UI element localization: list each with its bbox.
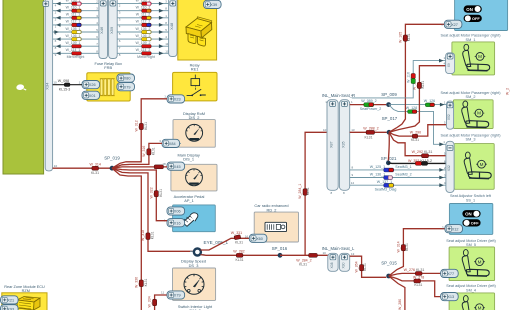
connector X06 [167, 207, 185, 215]
svg-text:KL31: KL31 [365, 135, 373, 139]
svg-text:SP_016: SP_016 [272, 246, 288, 251]
svg-text:W_316: W_316 [142, 146, 146, 157]
svg-text:SeatPower_2: SeatPower_2 [360, 107, 382, 111]
svg-text:X35: X35 [342, 141, 346, 147]
wire SP_017 to SP_021 [387, 132, 390, 161]
wire W_105 (SP_017 up to X27) [389, 24, 444, 132]
svg-text:KL31: KL31 [421, 81, 425, 89]
inline connector INL_Main-Seat_R X35 [339, 100, 353, 196]
wire W_106_2 [117, 34, 168, 43]
node SP_016 [272, 246, 288, 258]
connector X77 [441, 269, 459, 278]
label Seat adjust Motor Driver (left) SM_4 [446, 284, 496, 292]
ECU left (green module) [3, 0, 44, 174]
wire W_314 (X34 to SP_019) [53, 162, 110, 175]
svg-text:SeatM3_2: SeatM3_2 [395, 173, 411, 177]
connector bar SM_2 [447, 101, 454, 129]
svg-text:KL31: KL31 [299, 262, 307, 266]
connector X32 [446, 141, 454, 192]
switch (top right, partially cut) [455, 0, 508, 31]
svg-text:W_110_1: W_110_1 [66, 6, 81, 10]
wire W_116 (INL to SM_1 pin1) [351, 56, 446, 98]
svg-text:W_292 KL31: W_292 KL31 [412, 150, 433, 154]
connector X12 [442, 225, 463, 233]
svg-text:W_105_2: W_105_2 [136, 27, 151, 31]
wire W_282 (EYE to SP_016) [201, 249, 278, 262]
wire W_278 (SP_015 to X13) [389, 275, 441, 296]
svg-text:SS_1: SS_1 [466, 198, 475, 202]
svg-text:KL31: KL31 [152, 147, 156, 155]
wire W_331 (EYE to radio X60) [201, 231, 250, 250]
label Seat adjust Motor Driver (left) SM_5 [446, 239, 496, 247]
svg-text:KL15-3: KL15-3 [59, 87, 71, 91]
svg-text:KL31: KL31 [151, 231, 155, 239]
svg-text:12: 12 [351, 181, 355, 185]
node SP_015 [381, 261, 397, 279]
svg-text:KL31: KL31 [411, 138, 419, 142]
svg-text:11: 11 [161, 291, 164, 295]
svg-text:X34: X34 [45, 82, 50, 90]
svg-text:W_114_2: W_114_2 [136, 48, 151, 52]
wire W_128 (SP_009 to SM_3 pin1) [389, 105, 446, 147]
label Fuse Relay Box FRB [94, 61, 122, 70]
svg-text:SP_019: SP_019 [104, 155, 120, 160]
wire W_125_1 SeatM3_1 [350, 165, 446, 172]
svg-text:X06: X06 [174, 210, 181, 214]
svg-text:W_112_2: W_112_2 [136, 20, 151, 24]
wire W_105_1 [53, 27, 99, 36]
connector X79 (FRB) [117, 83, 135, 91]
wire W_106_1 [53, 34, 99, 43]
display DIS_2 [173, 120, 215, 148]
svg-text:W_331: W_331 [231, 231, 242, 235]
svg-text:W_089_2: W_089_2 [361, 99, 376, 103]
svg-text:X16: X16 [174, 221, 181, 225]
svg-text:W_334: W_334 [147, 296, 151, 307]
svg-text:W_264: W_264 [355, 261, 359, 272]
connector X01 [82, 91, 100, 99]
wire W_292 (SP_017 to X32 pin5) [389, 132, 446, 157]
svg-text:MirrorRight: MirrorRight [67, 55, 85, 59]
svg-text:W_276 KL31: W_276 KL31 [404, 268, 425, 272]
connector X79 (DS_3) [161, 291, 185, 300]
connector X26 [82, 81, 100, 89]
svg-text:W_111_1: W_111_1 [66, 13, 81, 17]
svg-text:X46: X46 [99, 26, 104, 34]
edge label fragment right [506, 88, 510, 95]
X34 expand icon [43, 1, 49, 6]
svg-text:KL31: KL31 [235, 241, 243, 245]
wire W_098 KL15-3 [53, 79, 82, 91]
svg-text:W_109_2: W_109_2 [136, 41, 151, 45]
svg-text:10: 10 [323, 251, 327, 255]
svg-text:13: 13 [351, 252, 355, 256]
wire W_310 (SP_019 to X45) [112, 165, 167, 169]
wire W_103_1 [53, 0, 99, 7]
seat motor SM_1 [452, 42, 495, 75]
wire W_089_2 SeatPower_2 [350, 99, 387, 111]
wire W_112_1 [53, 20, 99, 29]
svg-text:KL31: KL31 [414, 283, 422, 287]
svg-text:X45: X45 [174, 165, 181, 169]
svg-text:W_098: W_098 [58, 79, 69, 83]
fuse relay box FRB (component body) [87, 73, 130, 101]
svg-text:SM_1: SM_1 [466, 38, 476, 42]
svg-text:W_278: W_278 [413, 275, 424, 279]
svg-text:10: 10 [323, 128, 327, 132]
wire W_288_2 (INL to SP_017) [350, 127, 387, 140]
connector X93 [1, 305, 19, 310]
connector X80 [117, 74, 135, 82]
wire W_109_1 [53, 41, 99, 50]
label Accelerator Pedal AP_1 [174, 194, 205, 203]
connector X23 [164, 95, 184, 103]
svg-text:DS_3: DS_3 [189, 263, 199, 268]
svg-text:X32: X32 [447, 165, 451, 171]
svg-text:W_314: W_314 [397, 241, 401, 252]
label Car radio enhanced RD_2 [254, 203, 288, 212]
svg-text:W_112_1: W_112_1 [66, 20, 81, 24]
svg-text:SP_017: SP_017 [382, 116, 398, 121]
svg-text:X79: X79 [174, 294, 181, 298]
svg-text:10: 10 [54, 164, 58, 168]
car radio RD_2 [254, 212, 298, 242]
svg-text:KL31: KL31 [144, 278, 148, 286]
label Relay RE1 [190, 62, 200, 71]
wire W_114_2 [117, 48, 169, 57]
wire W_322 (SP_019 to X16) [112, 168, 167, 221]
wire W_103_2 [117, 0, 168, 7]
accelerator pedal AP_1 [173, 205, 216, 232]
svg-text:W_280: W_280 [398, 299, 402, 310]
svg-text:FRB: FRB [104, 65, 112, 70]
connector X59 (Fuse Relay Box) [109, 0, 118, 59]
connector X46 (Fuse Relay Box) [99, 0, 108, 59]
wire W_280 (SP_015 down to edge) [389, 276, 405, 310]
svg-text:X80: X80 [124, 77, 131, 81]
wire W_137_1 SeatM3_Diag [350, 180, 446, 191]
inline connector INL_Main-Seat_L X08 [328, 253, 338, 271]
svg-text:X79: X79 [124, 85, 131, 89]
svg-text:W_2: W_2 [506, 88, 510, 95]
connector X39 [204, 0, 222, 8]
svg-text:INL_Main-Seat_L: INL_Main-Seat_L [322, 246, 355, 251]
svg-text:X23: X23 [174, 98, 181, 102]
wire W_111_1 [53, 13, 99, 22]
svg-text:X48: X48 [169, 22, 174, 30]
svg-text:W_103_2: W_103_2 [136, 0, 151, 2]
svg-text:W_128: W_128 [406, 106, 417, 110]
svg-text:DIS_1: DIS_1 [183, 157, 194, 162]
label Seat adjust Motor Passenger (right) SM_1 [441, 34, 502, 42]
svg-text:X87: X87 [330, 141, 334, 147]
svg-text:W_106_2: W_106_2 [136, 34, 151, 38]
label Display RoM DIS_2 [183, 111, 205, 120]
svg-text:KL31: KL31 [405, 243, 409, 251]
svg-text:SM_4: SM_4 [466, 288, 476, 292]
svg-text:X30: X30 [342, 262, 346, 268]
connector X21 [1, 296, 19, 304]
wire W_284_1 (INL_Main-Seat_R pin10 down) [298, 128, 327, 255]
inline connector INL_Main-Seat_L X30 [339, 253, 349, 271]
connector X16 [164, 218, 185, 226]
svg-text:X12: X12 [452, 227, 459, 231]
wire W_264 (INL_Main-Seat_L to SP_015) [350, 252, 387, 277]
wire W_336 (SP_019 down to edge) [112, 168, 148, 310]
node SP_021 [381, 156, 397, 165]
eyelet EYE_005_1 [190, 249, 205, 256]
svg-text:RE1: RE1 [191, 67, 199, 72]
seat motor SM_5 [449, 247, 495, 281]
svg-text:KL31: KL31 [363, 263, 367, 271]
svg-text:KL31: KL31 [407, 33, 411, 41]
node SP_009 [381, 92, 397, 107]
node SP_019 [104, 155, 120, 170]
svg-text:W_109_1: W_109_1 [66, 41, 81, 45]
svg-text:W_106_1: W_106_1 [66, 34, 81, 38]
wire W_314b (SP_015 up to X12) [389, 229, 445, 276]
relay RE1 (schematic symbol box) [173, 72, 217, 101]
seat motor SM_2 [453, 100, 493, 129]
svg-text:X08: X08 [330, 262, 334, 268]
svg-text:W_282: W_282 [233, 249, 244, 253]
svg-text:W_116: W_116 [406, 72, 410, 83]
svg-text:X52: X52 [447, 114, 451, 120]
svg-text:10: 10 [53, 80, 57, 84]
wire W_136_1 SeatM3_2 [350, 173, 446, 180]
svg-text:W_111_2: W_111_2 [136, 13, 151, 17]
svg-text:W_105_1: W_105_1 [66, 27, 81, 31]
wire W_118 (SP_017 up to SM_1 pin4) [389, 61, 446, 132]
label Seat adjust Motor Passenger (right) SM_2 [441, 91, 502, 99]
svg-text:SP_015: SP_015 [381, 261, 397, 266]
svg-text:MirrorRight: MirrorRight [137, 55, 155, 59]
svg-text:X60: X60 [256, 237, 263, 241]
label Switch Interior Light [178, 304, 213, 310]
svg-text:16: 16 [245, 234, 249, 238]
svg-text:KL31: KL31 [236, 258, 244, 262]
wire W_284_2 (SP_016 to INL_Main-Seat_L) [280, 251, 328, 266]
wire W_110_1 [53, 6, 99, 15]
svg-text:KL31: KL31 [91, 171, 99, 175]
label Seat Adjustor Switch left SS_1 [450, 194, 492, 202]
svg-text:X84: X84 [169, 142, 176, 146]
wire W_109_2 [117, 41, 169, 50]
svg-text:13: 13 [351, 128, 355, 132]
svg-text:W_114_1: W_114_1 [66, 48, 81, 52]
label Seat adjust Motor Passenger (right) SM_3 [441, 133, 502, 141]
connector X48 (Relay) [169, 0, 177, 57]
svg-text:W_284_1: W_284_1 [298, 184, 302, 199]
seat motor SM_4 [449, 293, 495, 310]
svg-text:W_110_2: W_110_2 [136, 6, 151, 10]
svg-text:W_322: W_322 [150, 187, 154, 198]
ECU RZM [2, 293, 47, 310]
connector X34 [45, 0, 53, 171]
seat motor SM_3 [454, 144, 494, 190]
wire W_276 (SP_015 to X77) [389, 268, 441, 276]
wire W_353 KL15-2 (SP_021 to X32 pin6) [388, 159, 446, 165]
svg-text:W_290: W_290 [410, 131, 421, 135]
svg-text:X77: X77 [447, 272, 454, 276]
switch SS_1 [449, 204, 492, 235]
svg-text:W_312: W_312 [135, 120, 139, 131]
node SP_017 [382, 116, 398, 135]
svg-text:X26: X26 [89, 83, 96, 87]
connector X84 [159, 139, 181, 147]
svg-text:SeatM3_1: SeatM3_1 [395, 165, 411, 169]
display DS_3 [173, 268, 216, 300]
svg-text:RZM: RZM [22, 289, 30, 293]
svg-text:SM_3: SM_3 [466, 138, 476, 142]
svg-text:W_288_2: W_288_2 [363, 127, 378, 131]
connector X27 [441, 20, 462, 28]
svg-text:X01: X01 [89, 94, 96, 98]
wire W_334 (bottom edge to X79) [147, 295, 167, 310]
svg-text:W_353 KL15-2: W_353 KL15-2 [408, 159, 432, 163]
svg-text:KL31: KL31 [144, 122, 148, 130]
connector X13 [441, 293, 459, 301]
inline connector INL_Main-Seat_R X87 [325, 100, 338, 196]
svg-text:W_126: W_126 [424, 99, 435, 103]
svg-text:X59: X59 [109, 26, 114, 34]
svg-text:W_137_1: W_137_1 [377, 180, 392, 184]
svg-text:X39: X39 [210, 3, 217, 7]
svg-text:W_105: W_105 [399, 32, 403, 43]
svg-text:W_136_1: W_136_1 [370, 173, 385, 177]
label Main Display DIS_1 [178, 152, 200, 161]
wire W_114_1 [53, 48, 99, 57]
wire W_316 (SP_019 to X84) [112, 143, 162, 168]
wire W_126 (SP_009 to SM_2 pin1) [389, 99, 447, 106]
svg-text:W_336: W_336 [135, 277, 139, 288]
svg-text:SM_2: SM_2 [466, 95, 476, 99]
svg-text:X13: X13 [447, 295, 454, 299]
wire W_111_2 [117, 13, 168, 22]
svg-text:W_125_1: W_125_1 [370, 165, 385, 169]
svg-text:SeatM3_Diag: SeatM3_Diag [375, 187, 397, 191]
wire W_110_2 [117, 6, 168, 15]
wire W_112_2 [117, 20, 168, 29]
connector X45 [162, 162, 184, 170]
svg-text:AP_1: AP_1 [184, 198, 194, 203]
svg-text:KL31: KL31 [159, 189, 163, 197]
svg-text:X9: X9 [447, 63, 451, 67]
wire W_312 (SP_019 to relay X23) [112, 99, 167, 168]
connector X60 [245, 234, 267, 242]
svg-text:RD_2: RD_2 [267, 207, 277, 212]
svg-text:SP_009: SP_009 [381, 92, 397, 97]
wire W_105_2 [117, 27, 168, 36]
label Rear Zone Module ECU RZM [4, 285, 45, 293]
relay RE1 housing (3D view) [178, 0, 217, 60]
display DIS_1 [171, 164, 217, 191]
svg-text:X21: X21 [7, 299, 14, 303]
label Display Speed DS_3 [181, 259, 206, 268]
wire W_318 (SP_019 to EYE_005_1) [112, 168, 194, 251]
svg-text:KL31: KL31 [306, 187, 310, 195]
connector bar SM_1 [446, 53, 455, 74]
svg-text:W_103_1: W_103_1 [66, 0, 81, 2]
wire W_290 (SP_017 to SM_2 pin5) [389, 121, 447, 142]
svg-text:X27: X27 [451, 23, 458, 27]
svg-text:SP_021: SP_021 [381, 156, 397, 161]
svg-text:W_314: W_314 [90, 162, 101, 166]
